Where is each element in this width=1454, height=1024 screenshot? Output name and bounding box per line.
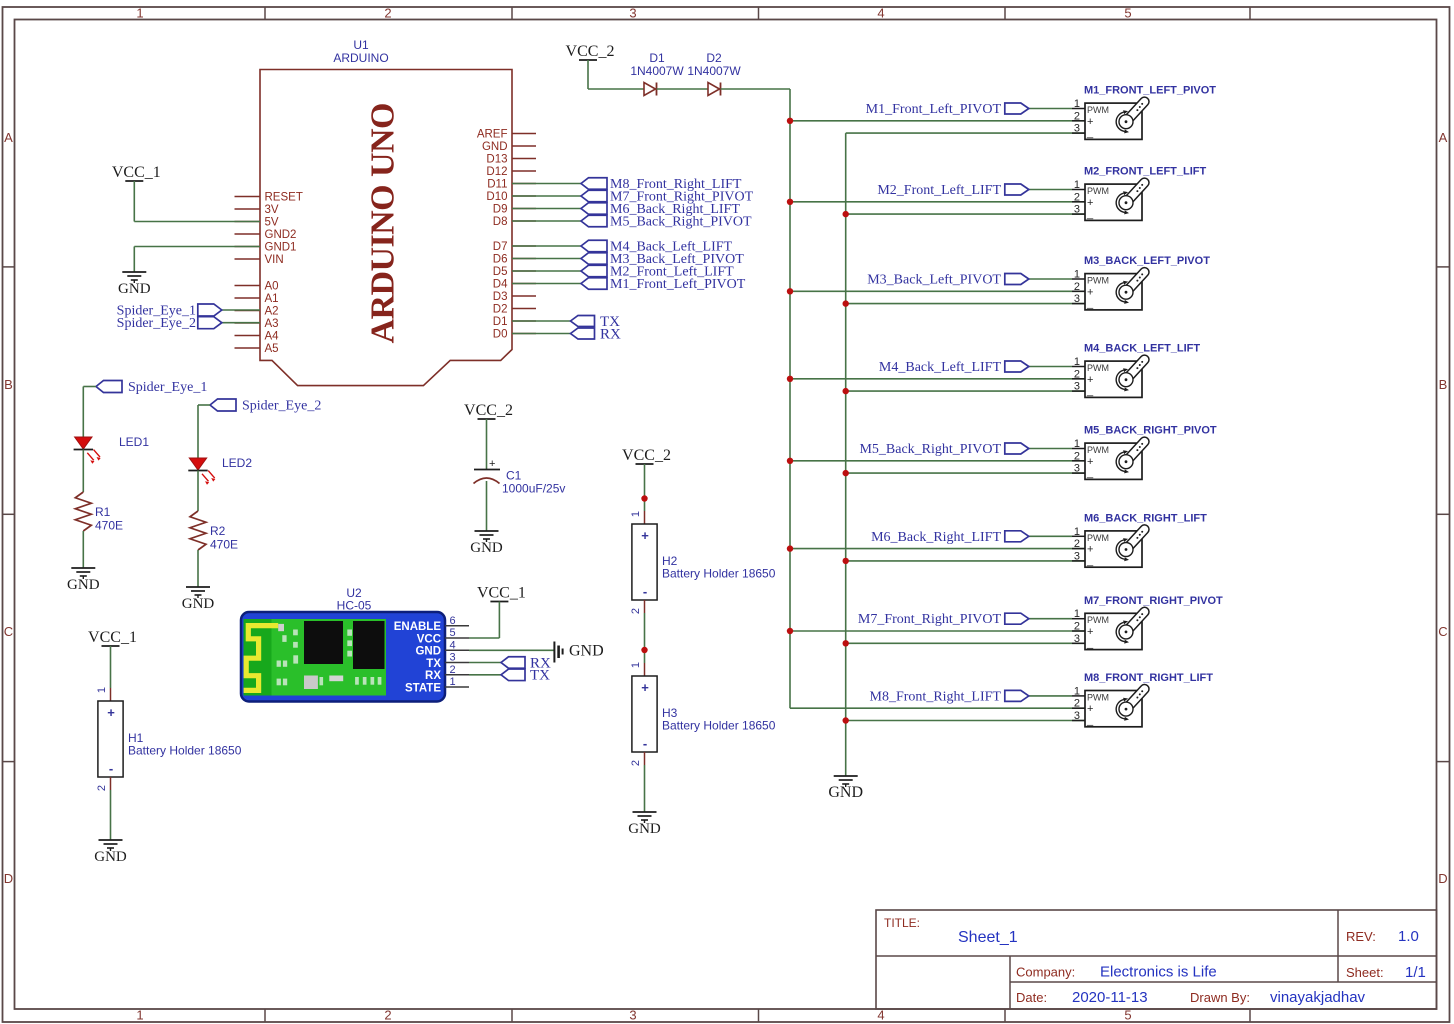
svg-text:1: 1 xyxy=(1074,179,1080,191)
svg-text:Company:: Company: xyxy=(1016,965,1075,980)
svg-text:4: 4 xyxy=(449,639,455,651)
svg-text:GND: GND xyxy=(482,141,508,153)
svg-text:GND: GND xyxy=(182,596,215,612)
svg-text:D10: D10 xyxy=(486,191,507,203)
svg-text:3: 3 xyxy=(1074,550,1080,562)
svg-text:D6: D6 xyxy=(493,254,508,266)
svg-text:+: + xyxy=(489,458,495,470)
svg-text:_: _ xyxy=(1086,208,1094,220)
svg-text:VCC_1: VCC_1 xyxy=(88,629,137,646)
svg-text:M3_BACK_LEFT_PIVOT: M3_BACK_LEFT_PIVOT xyxy=(1084,255,1210,267)
svg-text:M7_Front_Right_PIVOT: M7_Front_Right_PIVOT xyxy=(858,612,1002,627)
svg-text:3: 3 xyxy=(629,6,636,21)
svg-text:D9: D9 xyxy=(493,204,508,216)
svg-text:_: _ xyxy=(1086,298,1094,310)
svg-text:3: 3 xyxy=(1074,633,1080,645)
svg-text:D: D xyxy=(4,871,13,886)
svg-text:3: 3 xyxy=(1074,293,1080,305)
svg-text:1: 1 xyxy=(449,676,455,688)
svg-text:4: 4 xyxy=(877,6,884,21)
svg-text:Battery Holder 18650: Battery Holder 18650 xyxy=(662,567,776,581)
svg-text:1: 1 xyxy=(1074,269,1080,281)
svg-text:D8: D8 xyxy=(493,216,508,228)
svg-text:Drawn By:: Drawn By: xyxy=(1190,990,1250,1005)
svg-text:HC-05: HC-05 xyxy=(337,599,372,613)
svg-text:PWM: PWM xyxy=(1087,533,1109,543)
svg-text:2: 2 xyxy=(1074,450,1080,462)
svg-text:VCC_1: VCC_1 xyxy=(477,585,526,602)
svg-text:VCC_1: VCC_1 xyxy=(112,164,161,181)
svg-text:1: 1 xyxy=(630,511,642,517)
svg-text:A1: A1 xyxy=(265,293,279,305)
svg-text:-: - xyxy=(643,584,647,599)
svg-text:M8_Front_Right_LIFT: M8_Front_Right_LIFT xyxy=(870,689,1002,704)
svg-text:ARDUINO UNO: ARDUINO UNO xyxy=(365,103,402,344)
svg-text:+: + xyxy=(1087,626,1093,638)
svg-text:D1: D1 xyxy=(493,316,508,328)
svg-text:M4_BACK_LEFT_LIFT: M4_BACK_LEFT_LIFT xyxy=(1084,343,1200,355)
svg-text:1/1: 1/1 xyxy=(1405,964,1426,981)
svg-text:M6_Back_Right_LIFT: M6_Back_Right_LIFT xyxy=(871,530,1001,545)
svg-text:R1: R1 xyxy=(95,505,111,519)
svg-text:-: - xyxy=(109,761,113,776)
svg-text:A: A xyxy=(4,130,13,145)
svg-text:+: + xyxy=(1087,374,1093,386)
svg-text:+: + xyxy=(1087,286,1093,298)
svg-text:M1_Front_Left_PIVOT: M1_Front_Left_PIVOT xyxy=(866,102,1002,117)
svg-text:D13: D13 xyxy=(486,154,507,166)
svg-text:5: 5 xyxy=(449,627,455,639)
svg-text:2: 2 xyxy=(1074,110,1080,122)
svg-text:M2_Front_Left_LIFT: M2_Front_Left_LIFT xyxy=(877,183,1001,198)
svg-text:1: 1 xyxy=(630,662,642,668)
svg-text:M6_BACK_RIGHT_LIFT: M6_BACK_RIGHT_LIFT xyxy=(1084,512,1207,524)
svg-text:+: + xyxy=(641,528,649,543)
svg-text:_: _ xyxy=(1086,127,1094,139)
svg-text:3: 3 xyxy=(1074,381,1080,393)
svg-text:GND: GND xyxy=(67,577,100,593)
svg-text:+: + xyxy=(1087,116,1093,128)
svg-text:Spider_Eye_2: Spider_Eye_2 xyxy=(117,316,196,331)
svg-text:2: 2 xyxy=(1074,621,1080,633)
svg-text:GND: GND xyxy=(628,821,661,837)
svg-text:A5: A5 xyxy=(265,343,279,355)
svg-text:1: 1 xyxy=(136,1008,143,1023)
svg-text:+: + xyxy=(107,705,115,720)
svg-text:Battery Holder 18650: Battery Holder 18650 xyxy=(662,719,776,733)
svg-text:3: 3 xyxy=(449,652,455,664)
svg-text:2: 2 xyxy=(1074,281,1080,293)
svg-text:1N4007W: 1N4007W xyxy=(630,64,684,78)
svg-text:PWM: PWM xyxy=(1087,615,1109,625)
svg-text:_: _ xyxy=(1086,467,1094,479)
svg-text:PWM: PWM xyxy=(1087,692,1109,702)
svg-text:2: 2 xyxy=(1074,191,1080,203)
svg-text:5: 5 xyxy=(1124,6,1131,21)
svg-text:PWM: PWM xyxy=(1087,363,1109,373)
svg-text:3V: 3V xyxy=(265,204,279,216)
svg-text:ENABLE: ENABLE xyxy=(394,621,442,633)
svg-text:PWM: PWM xyxy=(1087,276,1109,286)
svg-text:A4: A4 xyxy=(265,331,280,343)
svg-text:-: - xyxy=(643,736,647,751)
svg-text:A: A xyxy=(1439,130,1448,145)
svg-text:vinayakjadhav: vinayakjadhav xyxy=(1270,989,1366,1006)
svg-text:RX: RX xyxy=(425,670,441,682)
svg-text:VIN: VIN xyxy=(265,254,284,266)
svg-text:_: _ xyxy=(1086,555,1094,567)
svg-text:TX: TX xyxy=(426,658,441,670)
svg-text:2020-11-13: 2020-11-13 xyxy=(1072,989,1148,1006)
svg-text:TITLE:: TITLE: xyxy=(884,916,920,930)
svg-text:VCC: VCC xyxy=(417,633,441,645)
svg-text:3: 3 xyxy=(1074,123,1080,135)
svg-text:A0: A0 xyxy=(265,281,279,293)
svg-text:REV:: REV: xyxy=(1346,929,1376,944)
svg-text:VCC_2: VCC_2 xyxy=(566,43,615,60)
svg-text:2: 2 xyxy=(1074,538,1080,550)
svg-text:U1: U1 xyxy=(353,38,369,52)
svg-text:2: 2 xyxy=(96,785,108,791)
svg-text:VCC_2: VCC_2 xyxy=(622,447,671,464)
svg-text:D: D xyxy=(1438,871,1447,886)
svg-text:D5: D5 xyxy=(493,266,508,278)
svg-text:M7_FRONT_RIGHT_PIVOT: M7_FRONT_RIGHT_PIVOT xyxy=(1084,595,1223,607)
svg-text:+: + xyxy=(1087,544,1093,556)
svg-text:2: 2 xyxy=(384,6,391,21)
svg-text:STATE: STATE xyxy=(405,682,441,694)
svg-text:PWM: PWM xyxy=(1087,186,1109,196)
svg-text:1: 1 xyxy=(1074,438,1080,450)
svg-text:1: 1 xyxy=(1074,608,1080,620)
svg-text:D7: D7 xyxy=(493,241,508,253)
svg-text:GND: GND xyxy=(470,540,503,556)
svg-text:PWM: PWM xyxy=(1087,445,1109,455)
svg-text:GND: GND xyxy=(569,643,604,660)
svg-text:3: 3 xyxy=(629,1008,636,1023)
svg-text:3: 3 xyxy=(1074,463,1080,475)
svg-text:Sheet:: Sheet: xyxy=(1346,965,1384,980)
svg-text:M5_Back_Right_PIVOT: M5_Back_Right_PIVOT xyxy=(610,215,752,230)
svg-text:2: 2 xyxy=(630,760,642,766)
svg-text:C: C xyxy=(4,624,13,639)
svg-text:LED2: LED2 xyxy=(222,456,252,470)
svg-text:3: 3 xyxy=(1074,710,1080,722)
svg-text:M3_Back_Left_PIVOT: M3_Back_Left_PIVOT xyxy=(867,273,1001,288)
svg-text:1: 1 xyxy=(1074,526,1080,538)
svg-text:D11: D11 xyxy=(487,179,507,191)
svg-text:D4: D4 xyxy=(493,279,508,291)
svg-text:Battery Holder 18650: Battery Holder 18650 xyxy=(128,744,242,758)
svg-text:1N4007W: 1N4007W xyxy=(687,64,741,78)
svg-text:1.0: 1.0 xyxy=(1398,928,1419,945)
svg-text:1000uF/25v: 1000uF/25v xyxy=(502,482,565,496)
svg-text:Spider_Eye_2: Spider_Eye_2 xyxy=(242,399,321,414)
svg-text:470E: 470E xyxy=(210,538,238,552)
svg-text:C1: C1 xyxy=(506,469,522,483)
svg-text:Electronics is Life: Electronics is Life xyxy=(1100,964,1217,981)
svg-text:D0: D0 xyxy=(493,329,508,341)
svg-text:GND: GND xyxy=(415,646,441,658)
svg-text:_: _ xyxy=(1086,637,1094,649)
svg-text:Sheet_1: Sheet_1 xyxy=(958,929,1018,946)
svg-text:GND2: GND2 xyxy=(265,229,297,241)
svg-text:Spider_Eye_1: Spider_Eye_1 xyxy=(128,380,207,395)
svg-text:M5_Back_Right_PIVOT: M5_Back_Right_PIVOT xyxy=(859,442,1001,457)
svg-text:VCC_2: VCC_2 xyxy=(464,402,513,419)
svg-text:D12: D12 xyxy=(486,166,507,178)
svg-text:2: 2 xyxy=(384,1008,391,1023)
svg-text:470E: 470E xyxy=(95,519,123,533)
svg-text:C: C xyxy=(1438,624,1447,639)
svg-text:6: 6 xyxy=(449,615,455,627)
svg-text:+: + xyxy=(1087,197,1093,209)
svg-text:D2: D2 xyxy=(706,51,722,65)
svg-text:ARDUINO: ARDUINO xyxy=(333,51,388,65)
svg-text:_: _ xyxy=(1086,715,1094,727)
svg-text:+: + xyxy=(1087,456,1093,468)
svg-text:R2: R2 xyxy=(210,524,226,538)
svg-text:B: B xyxy=(4,377,13,392)
svg-text:M1_Front_Left_PIVOT: M1_Front_Left_PIVOT xyxy=(610,277,746,292)
svg-text:M1_FRONT_LEFT_PIVOT: M1_FRONT_LEFT_PIVOT xyxy=(1084,85,1216,97)
svg-text:1: 1 xyxy=(1074,98,1080,110)
svg-text:B: B xyxy=(1439,377,1448,392)
svg-text:GND: GND xyxy=(118,281,151,297)
svg-text:PWM: PWM xyxy=(1087,105,1109,115)
svg-text:Date:: Date: xyxy=(1016,990,1047,1005)
svg-text:GND: GND xyxy=(94,849,127,865)
svg-text:D3: D3 xyxy=(493,291,508,303)
svg-text:RESET: RESET xyxy=(265,192,303,204)
svg-text:A2: A2 xyxy=(265,306,279,318)
svg-text:2: 2 xyxy=(630,608,642,614)
svg-text:GND: GND xyxy=(828,784,863,801)
svg-text:AREF: AREF xyxy=(477,129,508,141)
svg-text:1: 1 xyxy=(1074,356,1080,368)
svg-text:A3: A3 xyxy=(265,318,279,330)
svg-text:2: 2 xyxy=(1074,698,1080,710)
svg-text:5V: 5V xyxy=(265,217,279,229)
svg-text:GND1: GND1 xyxy=(265,242,297,254)
svg-text:2: 2 xyxy=(449,664,455,676)
svg-text:+: + xyxy=(1087,703,1093,715)
svg-text:M4_Back_Left_LIFT: M4_Back_Left_LIFT xyxy=(879,360,1002,375)
svg-text:D1: D1 xyxy=(649,51,665,65)
svg-text:LED1: LED1 xyxy=(119,435,149,449)
svg-text:+: + xyxy=(641,680,649,695)
svg-text:M2_FRONT_LEFT_LIFT: M2_FRONT_LEFT_LIFT xyxy=(1084,166,1207,178)
svg-text:1: 1 xyxy=(136,6,143,21)
svg-text:2: 2 xyxy=(1074,368,1080,380)
svg-text:RX: RX xyxy=(600,327,621,343)
svg-text:1: 1 xyxy=(1074,685,1080,697)
svg-text:_: _ xyxy=(1086,385,1094,397)
svg-text:TX: TX xyxy=(530,668,550,684)
svg-text:M5_BACK_RIGHT_PIVOT: M5_BACK_RIGHT_PIVOT xyxy=(1084,425,1217,437)
svg-text:D2: D2 xyxy=(493,304,508,316)
svg-text:3: 3 xyxy=(1074,204,1080,216)
svg-text:1: 1 xyxy=(96,687,108,693)
svg-text:M8_FRONT_RIGHT_LIFT: M8_FRONT_RIGHT_LIFT xyxy=(1084,672,1213,684)
